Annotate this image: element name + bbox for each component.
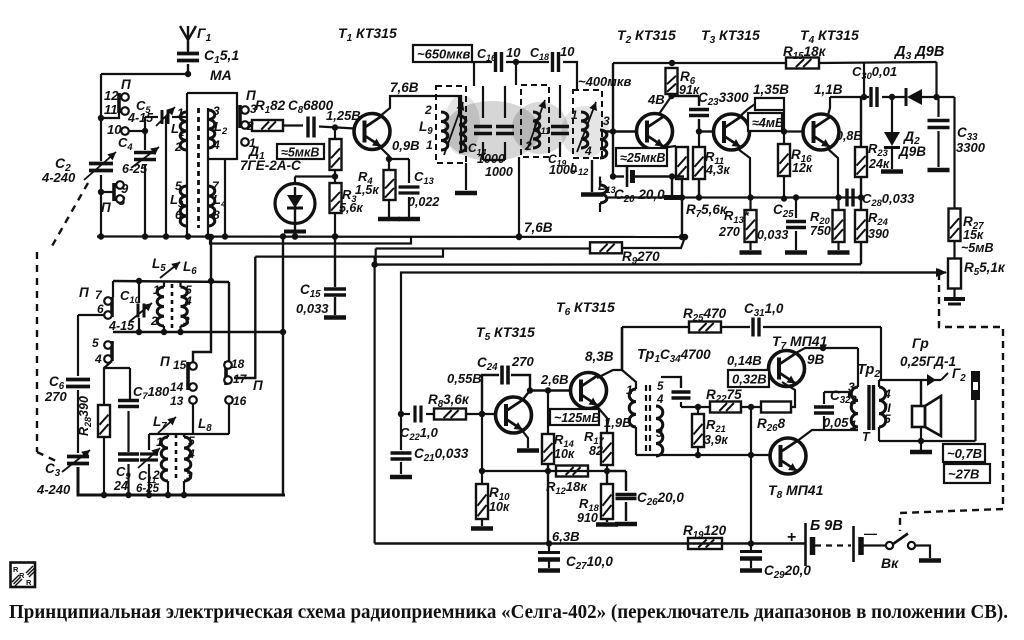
svg-text:R26​8: R26​8 — [757, 416, 786, 434]
svg-text:Т: Т — [862, 430, 871, 444]
svg-text:0,25ГД-1: 0,25ГД-1 — [900, 354, 956, 369]
svg-text:5: 5 — [92, 336, 99, 350]
svg-text:С1​5,1: С1​5,1 — [204, 47, 239, 66]
svg-text:4: 4 — [584, 144, 592, 158]
svg-text:10к: 10к — [489, 500, 510, 514]
svg-text:2: 2 — [524, 139, 532, 153]
svg-text:R1​82: R1​82 — [255, 98, 286, 116]
svg-text:Д9В: Д9В — [898, 144, 926, 159]
svg-text:2: 2 — [174, 140, 182, 154]
svg-text:0,14В: 0,14В — [727, 353, 762, 368]
svg-text:270: 270 — [718, 225, 740, 239]
svg-text:4-240: 4-240 — [36, 482, 71, 497]
svg-text:1,35В: 1,35В — [753, 82, 789, 97]
svg-text:270: 270 — [44, 389, 67, 404]
svg-text:9В: 9В — [807, 352, 825, 367]
svg-text:3: 3 — [603, 114, 610, 128]
svg-text:~125мВ: ~125мВ — [554, 411, 600, 425]
svg-text:R5​5,1к: R5​5,1к — [964, 260, 1006, 278]
svg-text:С27​10,0: С27​10,0 — [566, 554, 613, 572]
svg-text:0,033: 0,033 — [757, 228, 788, 242]
svg-text:≈25мкВ: ≈25мкВ — [620, 151, 665, 165]
svg-text:390: 390 — [868, 227, 889, 241]
svg-text:Г2​: Г2​ — [952, 366, 966, 384]
svg-text:5: 5 — [657, 381, 664, 393]
svg-text:≈4мВ: ≈4мВ — [752, 116, 784, 130]
svg-text:3: 3 — [656, 426, 663, 440]
svg-text:С20​ 20,0: С20​ 20,0 — [614, 187, 665, 205]
svg-text:5: 5 — [175, 179, 182, 193]
svg-text:1000: 1000 — [477, 152, 505, 166]
svg-text:4: 4 — [883, 387, 891, 401]
svg-text:3: 3 — [848, 380, 855, 394]
svg-text:0,32В: 0,32В — [732, 372, 767, 387]
svg-text:1: 1 — [850, 418, 857, 432]
svg-text:3,9к: 3,9к — [704, 433, 728, 447]
svg-text:10: 10 — [560, 44, 575, 59]
svg-text:Т1​ КТ315: Т1​ КТ315 — [338, 25, 397, 44]
svg-text:Т5​ КТ315: Т5​ КТ315 — [476, 324, 535, 343]
svg-text:С13​: С13​ — [414, 169, 435, 186]
svg-text:7,6В: 7,6В — [390, 80, 419, 95]
svg-text:12: 12 — [104, 88, 119, 103]
svg-text:Тр1​: Тр1​ — [637, 347, 660, 365]
svg-text:2,6В: 2,6В — [540, 372, 568, 387]
svg-text:R23​: R23​ — [868, 141, 889, 158]
svg-text:1: 1 — [426, 138, 433, 152]
svg-text:Д3​ Д9В: Д3​ Д9В — [893, 44, 944, 62]
svg-text:18: 18 — [231, 357, 245, 371]
svg-text:~5мВ: ~5мВ — [961, 241, 994, 255]
svg-text:С21​0,033: С21​0,033 — [414, 446, 469, 464]
svg-text:1,9В: 1,9В — [604, 415, 631, 430]
svg-text:~0,7В: ~0,7В — [947, 446, 982, 461]
svg-text:П: П — [121, 77, 131, 92]
svg-text:≈5мкВ: ≈5мкВ — [281, 146, 319, 160]
svg-text:4-240: 4-240 — [41, 170, 76, 185]
svg-text:R8​3,6к: R8​3,6к — [428, 392, 470, 410]
svg-text:0,55В: 0,55В — [447, 371, 482, 386]
svg-text:6-25: 6-25 — [136, 483, 160, 495]
svg-text:0,033: 0,033 — [296, 301, 329, 316]
svg-text:24к: 24к — [868, 157, 890, 171]
svg-text:С30​0,01: С30​0,01 — [852, 64, 897, 81]
svg-text:750: 750 — [810, 224, 831, 238]
svg-text:С34​4700: С34​4700 — [660, 347, 711, 365]
svg-text:13: 13 — [170, 394, 184, 408]
svg-text:5,6к: 5,6к — [339, 201, 363, 215]
svg-text:Т7​ МП41: Т7​ МП41 — [772, 333, 828, 352]
svg-text:3: 3 — [186, 469, 193, 483]
svg-text:7,6В: 7,6В — [524, 220, 553, 235]
svg-text:R: R — [26, 578, 32, 587]
svg-text:R28​390: R28​390 — [77, 396, 93, 436]
svg-text:Т3​ КТ315: Т3​ КТ315 — [701, 27, 760, 46]
svg-text:1: 1 — [177, 106, 184, 120]
svg-text:5: 5 — [188, 434, 195, 448]
svg-text:Принципиальная электрическая: Принципиальная электрическая схема радио… — [9, 602, 1008, 623]
svg-text:МА: МА — [210, 67, 232, 83]
svg-text:С3​: С3​ — [45, 461, 61, 479]
svg-text:С7​180: С7​180 — [133, 384, 170, 401]
svg-text:4: 4 — [94, 352, 102, 366]
svg-text:4,3к: 4,3к — [705, 163, 730, 177]
svg-text:П: П — [160, 354, 170, 369]
svg-text:L5​: L5​ — [152, 256, 166, 274]
svg-text:L6​: L6​ — [183, 259, 197, 277]
svg-text:3: 3 — [213, 104, 220, 118]
svg-text:7ГЕ-2А-С: 7ГЕ-2А-С — [240, 158, 301, 173]
svg-text:С18​: С18​ — [530, 46, 549, 62]
svg-text:910: 910 — [577, 511, 598, 525]
svg-text:2: 2 — [152, 468, 160, 482]
svg-text:С23​3300: С23​3300 — [698, 90, 749, 108]
svg-text:24: 24 — [113, 479, 128, 493]
svg-text:1,1В: 1,1В — [814, 82, 843, 97]
svg-text:16: 16 — [233, 394, 247, 408]
svg-text:2: 2 — [424, 103, 432, 117]
svg-text:+: + — [787, 529, 796, 546]
svg-text:R: R — [19, 571, 25, 580]
svg-text:~27В: ~27В — [948, 467, 979, 482]
svg-text:С15​: С15​ — [300, 282, 321, 300]
svg-text:R7​5,6к: R7​5,6к — [686, 202, 728, 220]
svg-text:4: 4 — [212, 138, 220, 152]
svg-text:0,9В: 0,9В — [392, 138, 419, 153]
svg-text:Т2​ КТ315: Т2​ КТ315 — [617, 27, 676, 46]
svg-text:1,5к: 1,5к — [355, 183, 379, 197]
svg-text:6: 6 — [175, 208, 182, 222]
svg-text:11: 11 — [104, 102, 118, 117]
svg-text:0,05: 0,05 — [823, 415, 849, 430]
svg-text:8: 8 — [213, 208, 220, 222]
svg-text:15к: 15к — [963, 228, 984, 242]
svg-text:Г1​: Г1​ — [197, 25, 212, 44]
svg-text:L12​: L12​ — [570, 160, 589, 177]
svg-text:12к: 12к — [792, 161, 813, 175]
svg-text:Вк: Вк — [881, 555, 899, 571]
svg-text:L2​: L2​ — [214, 119, 228, 136]
svg-text:0,022: 0,022 — [408, 195, 439, 209]
svg-text:Тр2​: Тр2​ — [857, 362, 880, 380]
svg-text:4В: 4В — [647, 92, 665, 107]
svg-text:Гр: Гр — [912, 335, 929, 351]
svg-text:—: — — [864, 526, 877, 541]
svg-text:15: 15 — [173, 358, 187, 372]
svg-text:П: П — [253, 378, 263, 393]
svg-text:П: П — [101, 200, 111, 215]
svg-text:L8​: L8​ — [198, 416, 212, 434]
svg-text:4: 4 — [184, 294, 192, 308]
svg-text:1: 1 — [626, 383, 633, 397]
svg-text:6,3В: 6,3В — [552, 529, 579, 544]
svg-text:10: 10 — [506, 45, 521, 60]
svg-text:С31​1,0: С31​1,0 — [744, 301, 784, 319]
svg-text:~650мкв: ~650мкв — [417, 47, 470, 62]
svg-text:4: 4 — [187, 447, 195, 461]
svg-text:3: 3 — [183, 314, 190, 328]
svg-text:7: 7 — [95, 288, 103, 302]
svg-text:5: 5 — [884, 412, 891, 426]
svg-text:0,8В: 0,8В — [836, 129, 862, 143]
svg-text:2: 2 — [849, 393, 857, 407]
svg-text:270: 270 — [511, 354, 534, 369]
svg-text:1: 1 — [156, 435, 163, 449]
svg-text:~400мкв: ~400мкв — [578, 74, 631, 89]
svg-text:R21​: R21​ — [706, 417, 726, 434]
svg-text:7: 7 — [212, 179, 220, 193]
svg-text:С25​: С25​ — [773, 202, 794, 220]
svg-text:R12​18к: R12​18к — [546, 479, 588, 496]
svg-text:С22​1,0: С22​1,0 — [400, 425, 439, 442]
svg-text:L7​: L7​ — [153, 414, 167, 432]
svg-text:8,3В: 8,3В — [585, 349, 614, 364]
svg-text:С26​20,0: С26​20,0 — [637, 490, 684, 508]
svg-text:R24​: R24​ — [868, 210, 889, 227]
svg-text:П: П — [79, 285, 89, 300]
svg-text:1: 1 — [571, 108, 578, 122]
svg-text:82: 82 — [589, 444, 603, 458]
svg-text:3300: 3300 — [956, 140, 986, 155]
svg-text:L9​: L9​ — [419, 119, 433, 137]
svg-text:С4​: С4​ — [118, 135, 133, 152]
svg-text:1: 1 — [153, 283, 160, 297]
svg-text:С10​: С10​ — [120, 288, 141, 305]
svg-text:Б 9В: Б 9В — [810, 518, 843, 534]
svg-text:4: 4 — [656, 394, 664, 406]
svg-text:1000: 1000 — [485, 165, 513, 179]
svg-text:Т8​ МП41: Т8​ МП41 — [768, 482, 824, 501]
svg-text:С28​0,033: С28​0,033 — [862, 191, 915, 208]
svg-text:Т6​ КТ315: Т6​ КТ315 — [556, 299, 615, 318]
svg-text:14: 14 — [170, 380, 184, 394]
svg-text:2: 2 — [150, 314, 158, 328]
svg-text:10к: 10к — [554, 447, 575, 461]
